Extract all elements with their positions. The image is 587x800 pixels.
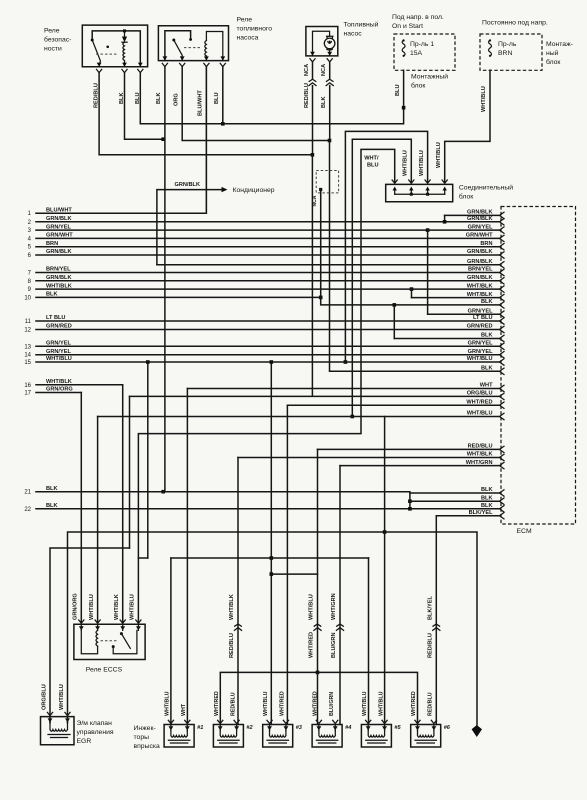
svg-text:WHT/BLU: WHT/BLU xyxy=(59,684,65,710)
ECM row GRN/YEL at y314 xyxy=(428,313,500,315)
wire BLK from relay K2 pin1 down to row21 xyxy=(164,67,166,492)
relay K3 pin arrows xyxy=(79,620,84,623)
svg-text:NCA: NCA xyxy=(304,64,310,76)
svg-text:GRN/BLK: GRN/BLK xyxy=(175,182,200,188)
svg-text:Кондиционер: Кондиционер xyxy=(233,187,275,194)
wire riser row17 to ECCS relay pin1 xyxy=(80,393,82,623)
row 21 wire BLK xyxy=(36,491,410,493)
row 7 wire BRN/YEL xyxy=(36,272,500,274)
svg-text:BRN: BRN xyxy=(498,50,512,57)
svg-text:21: 21 xyxy=(24,490,31,496)
svg-text:BLK: BLK xyxy=(321,97,327,109)
BLK rows corner riser xyxy=(409,493,411,509)
fuse F2 (Пр-ль BRN) dashed mounting block xyxy=(480,34,542,70)
svg-text:RED/BLU: RED/BLU xyxy=(230,692,236,716)
svg-text:BLK/YEL: BLK/YEL xyxy=(428,595,434,620)
injector #4 coil xyxy=(319,731,335,738)
svg-text:WHT/RED: WHT/RED xyxy=(411,691,417,716)
svg-text:BLU/GRN: BLU/GRN xyxy=(331,633,337,658)
svg-text:Постоянно под напр.: Постоянно под напр. xyxy=(482,20,548,27)
svg-text:WHT/RED: WHT/RED xyxy=(466,399,492,405)
BLK row tap riser from ECM BLK row 304.9 xyxy=(393,303,397,307)
svg-text:WHT/RED: WHT/RED xyxy=(313,691,319,716)
svg-text:WHT/RED: WHT/RED xyxy=(280,691,286,716)
svg-text:#1: #1 xyxy=(197,725,203,731)
svg-text:WHT/BLU: WHT/BLU xyxy=(165,691,171,716)
row 13 wire GRN/YEL xyxy=(36,345,500,347)
fuel pump (Топливный насос) box xyxy=(306,27,338,56)
svg-text:ECM: ECM xyxy=(517,528,532,535)
relay K1 (Реле безопасности) box xyxy=(82,25,147,67)
svg-text:BLK/YEL: BLK/YEL xyxy=(469,510,494,516)
svg-text:WHT: WHT xyxy=(480,383,493,389)
fuse F1 (Пр-ль 1 15A) dashed mounting block xyxy=(394,34,455,70)
junction NCA wire at row10 end xyxy=(319,296,323,300)
row 16 wire WHT/BLK xyxy=(36,384,123,386)
svg-text:12: 12 xyxy=(24,328,31,334)
svg-text:NCA: NCA xyxy=(321,64,327,76)
NCA stub wire to row 10 xyxy=(319,188,322,191)
svg-text:LT BLU: LT BLU xyxy=(473,315,492,321)
ECM row GRN/BLK at y215 xyxy=(445,214,500,216)
svg-text:RED/BLU: RED/BLU xyxy=(304,83,310,108)
row 22 wire BLK xyxy=(36,508,500,510)
svg-text:WHT/BLU: WHT/BLU xyxy=(419,150,425,176)
svg-text:RED/BLU: RED/BLU xyxy=(428,633,434,658)
row 9 wire WHT/BLK xyxy=(36,288,500,290)
row 6 wire GRN/BLK xyxy=(36,254,500,256)
relay K3 switch xyxy=(120,632,123,635)
connector on pump left wire xyxy=(309,79,316,81)
svg-text:WHT/BLK: WHT/BLK xyxy=(46,283,72,289)
svg-text:RED/BLU: RED/BLU xyxy=(468,444,493,450)
svg-text:GRN/YEL: GRN/YEL xyxy=(468,308,493,314)
svg-text:16: 16 xyxy=(24,383,31,389)
row 4 wire GRN/WHT xyxy=(36,237,500,239)
svg-text:WHT/GRN: WHT/GRN xyxy=(466,460,493,466)
svg-text:BLU/GRN: BLU/GRN xyxy=(329,692,335,716)
row 1 riser to relay K2 BLU/WHT pin xyxy=(204,67,206,214)
ECM row BLK/YEL at y515 xyxy=(436,515,500,517)
svg-text:BLU/WHT: BLU/WHT xyxy=(198,90,204,116)
wire WHT/GRN ECM row down to injector4 right xyxy=(339,466,341,725)
svg-text:GRN/WHT: GRN/WHT xyxy=(466,233,493,239)
relay K2 internal bus left xyxy=(165,31,191,61)
relay K1 internal top bus xyxy=(92,31,140,67)
row 8 wire GRN/BLK xyxy=(36,280,500,282)
svg-text:WHT/BLK: WHT/BLK xyxy=(467,283,493,289)
svg-text:WHT/BLK: WHT/BLK xyxy=(229,594,235,620)
svg-text:#4: #4 xyxy=(345,725,352,731)
injector3 left pin wire xyxy=(270,558,272,725)
fuel pump motor circle xyxy=(324,38,335,49)
svg-text:BLK: BLK xyxy=(481,495,493,501)
svg-text:GRN/YEL: GRN/YEL xyxy=(468,341,493,347)
svg-text:Соединительный: Соединительный xyxy=(459,184,513,192)
svg-text:GRN/WHT: GRN/WHT xyxy=(46,233,73,239)
svg-text:безопас-: безопас- xyxy=(44,36,71,44)
wire WHT/BLU junction block pin3 chain to row15 xyxy=(345,131,427,362)
svg-text:WHT/BLK: WHT/BLK xyxy=(467,292,493,298)
wire WHT/BLU junction block pin2 chain to ECM WHT/BLU row xyxy=(352,139,411,416)
svg-text:WHT/BLU: WHT/BLU xyxy=(403,150,409,176)
svg-text:блок: блок xyxy=(411,82,425,90)
EGR right pin wire from ground bus xyxy=(68,532,478,725)
svg-text:WHT/BLK: WHT/BLK xyxy=(46,379,72,385)
wire riser row15 to injector3 left xyxy=(270,362,272,558)
svg-text:BLK: BLK xyxy=(481,503,493,509)
relay K2 coil xyxy=(205,56,207,61)
ground bus junction WHT/BLU riser xyxy=(383,530,387,534)
svg-text:14: 14 xyxy=(24,353,31,359)
svg-text:BLK: BLK xyxy=(46,292,58,298)
svg-text:WHT/BLU: WHT/BLU xyxy=(481,86,487,112)
svg-text:WHT/GRN: WHT/GRN xyxy=(331,593,337,620)
svg-text:BLK: BLK xyxy=(46,486,58,492)
svg-text:ORG: ORG xyxy=(173,93,179,106)
row9 tap to WHT/BLK ECM row xyxy=(410,287,414,291)
injector #3 box xyxy=(263,725,293,748)
svg-text:RED/BLU: RED/BLU xyxy=(428,692,434,716)
svg-text:WHT/BLU: WHT/BLU xyxy=(130,594,136,620)
ECM arrow+label BRN/YEL y272 xyxy=(500,269,505,275)
ECM dashed box xyxy=(501,207,576,525)
wire NCA/RED_BLU from pump left pin xyxy=(312,62,314,79)
wire ORG from relay K2 pin2 xyxy=(182,67,329,141)
injector odd feed line y558 left stub xyxy=(138,557,147,559)
svg-text:BLU: BLU xyxy=(395,85,401,97)
ECM row WHT/RED at y405 xyxy=(287,404,500,406)
connector on pump right wire xyxy=(326,79,333,81)
row3 tap dot xyxy=(426,228,430,232)
svg-text:Реле: Реле xyxy=(237,17,253,24)
svg-text:ORG/BLU: ORG/BLU xyxy=(42,684,48,710)
relay K2 (Реле топливного насоса) box xyxy=(158,26,228,61)
svg-text:GRN/ORG: GRN/ORG xyxy=(73,593,79,620)
ECM row RED/BLU at y449 xyxy=(318,448,501,450)
junction: JB pin3 chain on row 15 xyxy=(344,360,348,364)
fuel pump lower collar xyxy=(327,48,333,51)
row 2 wire GRN/BLK xyxy=(36,221,500,223)
svg-text:WHT/BLK: WHT/BLK xyxy=(114,594,120,620)
svg-text:ORG/BLU: ORG/BLU xyxy=(467,391,493,397)
ECM arrow+label WHT/BLU y362 xyxy=(500,359,505,365)
ECM arrow+label BLK y371 xyxy=(500,368,505,374)
svg-text:22: 22 xyxy=(24,507,31,513)
wire ECCS pin2 riser to WHT/BLU ECM row xyxy=(97,417,99,623)
svg-text:Под напр. в пол.: Под напр. в пол. xyxy=(392,14,444,21)
injector #4 box xyxy=(312,725,342,748)
svg-text:управления: управления xyxy=(77,729,114,736)
junction feed bus xyxy=(316,671,320,675)
ECM arrow+label GRN/BLK y280 xyxy=(500,278,505,284)
svg-text:NCA: NCA xyxy=(312,195,318,206)
svg-text:GRN/RED: GRN/RED xyxy=(467,324,493,330)
svg-text:GRN/BLK: GRN/BLK xyxy=(46,275,71,281)
svg-text:RED/BLU: RED/BLU xyxy=(94,83,100,108)
NCA wire corner to ECM BLK row xyxy=(321,297,500,305)
svg-text:BLK: BLK xyxy=(481,299,493,305)
row3 tap riser down to ECM GRN/YEL row xyxy=(427,230,429,314)
svg-text:GRN/YEL: GRN/YEL xyxy=(46,341,71,347)
pump BLK wire continues down to ECM BLK row xyxy=(330,141,501,372)
ECM arrow+label GRN/WHT y238 xyxy=(500,235,505,241)
link wire y574 to injector feed riser xyxy=(270,572,274,576)
svg-text:GRN/YEL: GRN/YEL xyxy=(468,224,493,230)
ECM arrow+label BLK y304 xyxy=(500,302,505,308)
junction: BLK joins fuel-pump-relay BLK wire xyxy=(161,137,165,141)
ECM row BLK at y493 xyxy=(410,492,500,494)
injector #5 pin arrows xyxy=(366,726,371,730)
row 5 wire BRN xyxy=(36,246,500,248)
svg-text:GRN/BLK: GRN/BLK xyxy=(467,275,492,281)
injector #6 coil xyxy=(418,731,434,738)
svg-text:Реле: Реле xyxy=(44,28,60,35)
wire WHT/RED row down to injector3 right xyxy=(286,405,288,724)
ECM arrow+label GRN/YEL y346 xyxy=(500,343,505,349)
svg-text:10: 10 xyxy=(24,295,31,301)
fuse F2 symbol xyxy=(489,40,492,56)
wire BLU/WHT from relay K2 pin3 down to row1 xyxy=(205,67,207,214)
relay K1 coil junction xyxy=(123,29,126,32)
relay K3 (Реле ECCS) box xyxy=(74,624,145,659)
air conditioner wire GRN/BLK xyxy=(157,190,222,265)
relay K3 switch contact stub xyxy=(112,645,115,648)
ECM arrow+label BRN y246 xyxy=(500,244,505,250)
fuel pump motor mark xyxy=(328,42,332,44)
row15 tap dot at x147.8 xyxy=(146,360,150,364)
svg-text:BRN/YEL: BRN/YEL xyxy=(46,267,71,273)
ECM row WHT/BLK at y297 xyxy=(412,297,501,299)
svg-text:GRN/YEL: GRN/YEL xyxy=(46,349,71,355)
svg-text:Инжек-: Инжек- xyxy=(134,725,156,732)
row 12 wire GRN/RED xyxy=(36,329,500,331)
row 17 wire GRN/ORG xyxy=(36,392,81,394)
link row GRN/BLK corner to row2 xyxy=(444,215,446,221)
svg-text:Пр-ль: Пр-ль xyxy=(498,41,517,48)
EGR coil xyxy=(50,723,68,732)
wire WHT/BLK ECM row down to injector2 right xyxy=(237,458,239,725)
ECM row WHT/BLU at y416 xyxy=(98,416,500,418)
svg-text:11: 11 xyxy=(25,319,32,325)
injector #6 pin arrows xyxy=(415,726,420,730)
svg-text:Э/м клапан: Э/м клапан xyxy=(77,720,113,727)
WHT wire down to injector1 right pin xyxy=(186,389,188,725)
injector #5 coil xyxy=(368,731,384,738)
ground symbol bottom right xyxy=(472,725,482,737)
relay K3 coil circuit xyxy=(81,630,97,653)
svg-text:насос: насос xyxy=(344,31,363,38)
NCA dashed connector on pump wires xyxy=(316,171,338,193)
svg-text:BLK: BLK xyxy=(481,366,493,372)
row 11 wire LT BLU xyxy=(36,320,500,322)
wire row15 drop to feed line xyxy=(147,362,149,558)
svg-text:ности: ности xyxy=(44,46,62,53)
injector #2 coil xyxy=(220,731,236,738)
junction ORG joins pump BLK wire xyxy=(328,139,332,143)
svg-text:GRN/BLK: GRN/BLK xyxy=(467,216,492,222)
svg-text:WHT/BLU: WHT/BLU xyxy=(309,594,315,620)
svg-text:#3: #3 xyxy=(296,725,303,731)
wire RED/BLU from relay K1 pin1 xyxy=(99,73,312,155)
svg-text:WHT/BLU: WHT/BLU xyxy=(263,691,269,716)
relay K2 pin arrows xyxy=(163,56,168,60)
junction BLK at row 21 xyxy=(161,490,165,494)
svg-text:BLK: BLK xyxy=(119,93,125,105)
svg-text:BLK: BLK xyxy=(46,503,58,509)
svg-text:Монтажный: Монтажный xyxy=(411,73,448,81)
row 15 wire WHT/BLU xyxy=(36,361,500,363)
wire riser row16 to ECCS relay pin3 xyxy=(122,385,124,622)
wire BLK/YEL ECM row down to injector6 right xyxy=(435,516,437,725)
svg-text:GRN/YEL: GRN/YEL xyxy=(468,349,493,355)
svg-text:#5: #5 xyxy=(394,725,401,731)
wire WHT/BLU junction block pin1 chain to ECCS relay pin4 xyxy=(138,149,394,622)
svg-text:RED/BLU: RED/BLU xyxy=(229,633,235,658)
svg-text:WHT/RED: WHT/RED xyxy=(214,691,220,716)
svg-text:BLU/WHT: BLU/WHT xyxy=(46,207,72,213)
fuel pump inlet rect xyxy=(327,36,333,38)
ECM arrow+label BLK y508 xyxy=(500,506,505,512)
svg-text:блок: блок xyxy=(459,193,473,201)
ECM row ORG/BLU at y396 xyxy=(130,395,501,397)
wire BLU from relay K1 pin3 xyxy=(140,70,403,124)
svg-text:LT BLU: LT BLU xyxy=(46,315,65,321)
injector1 left pin wire from 558 line xyxy=(170,558,172,725)
svg-text:WHT/: WHT/ xyxy=(364,156,379,162)
injector #3 pin arrows xyxy=(267,726,272,730)
wire BLU from relay K2 pin4 xyxy=(222,67,224,124)
svg-text:BLK: BLK xyxy=(481,333,493,339)
svg-text:GRN/BLK: GRN/BLK xyxy=(467,249,492,255)
row 1 wire BLU/WHT xyxy=(36,212,204,214)
junction block internal bus xyxy=(395,193,445,195)
wire NCA/BLK from pump right pin xyxy=(329,62,331,79)
ECM arrow+label GRN/BLK y255 xyxy=(500,252,505,258)
svg-text:17: 17 xyxy=(24,391,31,397)
svg-text:BLU: BLU xyxy=(135,93,141,105)
injector #1 coil xyxy=(171,731,187,738)
svg-text:Монтаж-: Монтаж- xyxy=(546,41,573,48)
svg-text:GRN/RED: GRN/RED xyxy=(46,324,72,330)
junction block (Соединительный блок) box xyxy=(386,184,453,201)
EGR pin arrows xyxy=(48,718,53,722)
relay K1 pin arrows xyxy=(97,63,102,67)
injector #3 coil xyxy=(270,731,286,738)
svg-text:Пр-ль 1: Пр-ль 1 xyxy=(410,41,434,48)
svg-text:BRN: BRN xyxy=(480,241,492,247)
ECM row WHT/BLK at y457 xyxy=(238,457,500,459)
svg-text:BLU: BLU xyxy=(214,93,220,105)
svg-text:GRN/BLK: GRN/BLK xyxy=(467,210,492,216)
row 3 wire GRN/YEL xyxy=(36,229,500,231)
relay K1 coil xyxy=(123,42,125,60)
svg-text:GRN/ORG: GRN/ORG xyxy=(46,387,73,393)
svg-text:WHT/RED: WHT/RED xyxy=(309,632,315,658)
injector5 left pin wire xyxy=(368,558,370,725)
relay K2 switch xyxy=(174,40,182,61)
svg-text:BRN: BRN xyxy=(46,241,58,247)
EGR solenoid valve box xyxy=(41,717,75,745)
row 14 wire GRN/YEL xyxy=(36,354,500,356)
svg-text:WHT/BLK: WHT/BLK xyxy=(467,452,493,458)
ECM row WHT at y388 xyxy=(187,388,500,390)
svg-text:GRN/BLK: GRN/BLK xyxy=(46,249,71,255)
svg-text:WHT/BLU: WHT/BLU xyxy=(46,356,72,362)
svg-text:WHT/BLU: WHT/BLU xyxy=(362,691,368,716)
svg-text:EGR: EGR xyxy=(77,738,92,745)
junction dot on fuse wire xyxy=(402,106,406,110)
relay K1 switch xyxy=(92,40,100,67)
svg-text:WHT/BLU: WHT/BLU xyxy=(467,411,493,417)
svg-text:Топливный: Топливный xyxy=(344,21,379,29)
EGR ORG/BLU feed line y548 xyxy=(50,548,130,723)
relay K1 diode xyxy=(124,31,126,37)
svg-text:GRN/BLK: GRN/BLK xyxy=(46,216,71,222)
svg-text:Реле ECCS: Реле ECCS xyxy=(86,667,123,674)
junction: RED/BLU joins fuel-pump wire xyxy=(311,153,315,157)
svg-text:#6: #6 xyxy=(444,725,451,731)
injector #1 pin arrows xyxy=(169,726,174,730)
junction: BLU bus and fuel-pump-relay BLU xyxy=(221,122,225,126)
fuel pump internal wire xyxy=(313,31,330,56)
svg-text:WHT/BLU: WHT/BLU xyxy=(467,356,493,362)
fuel pump pin arrows xyxy=(310,52,315,56)
svg-text:On и Start: On и Start xyxy=(392,23,423,30)
ECM row GRN/BLK at y264 xyxy=(157,264,500,266)
svg-text:топливного: топливного xyxy=(237,26,273,33)
wire ORG/BLU row corner down to EGR feed line xyxy=(129,396,131,548)
injector odd feed line y558 xyxy=(171,557,369,559)
ECM arrow+label GRN/BLK y221 xyxy=(500,219,505,225)
fuse F1 symbol xyxy=(402,40,405,56)
svg-text:GRN/YEL: GRN/YEL xyxy=(46,224,71,230)
svg-text:15A: 15A xyxy=(410,50,423,57)
injector #2 box xyxy=(213,725,243,748)
svg-text:BLU: BLU xyxy=(367,163,379,169)
svg-text:WHT/BLU: WHT/BLU xyxy=(436,142,442,168)
svg-text:GRN/BLK: GRN/BLK xyxy=(467,259,492,265)
injector #6 box xyxy=(411,725,441,748)
row 10 wire BLK xyxy=(36,296,321,298)
injector even feed bus y672 xyxy=(220,672,417,724)
wire WHT/BLU from fuse F2 to junction block pin4 xyxy=(445,70,490,181)
pump RED/BLU wire continues to ORG/BLU row xyxy=(311,155,313,396)
wire BLK from relay K1 pin2 xyxy=(125,73,164,140)
ECM row BLK at y338 xyxy=(394,338,500,340)
ECM row BLK at y501 xyxy=(410,500,500,502)
injector #2 pin arrows xyxy=(218,726,223,730)
svg-text:WHT/BLU: WHT/BLU xyxy=(89,594,95,620)
svg-text:13: 13 xyxy=(24,344,31,350)
junction block pin arrows xyxy=(392,180,397,183)
injector #5 box xyxy=(361,725,391,748)
ECM arrow+label WHT/BLK y289 xyxy=(500,286,505,292)
wire WHT/BLU ECM row down to injector5 right xyxy=(384,417,386,725)
svg-text:WHT/BLU: WHT/BLU xyxy=(378,691,384,716)
svg-text:впрыска: впрыска xyxy=(134,743,160,750)
svg-text:насоса: насоса xyxy=(237,35,259,42)
wire RED/BLU ECM row down to injector feed bus xyxy=(317,449,319,672)
injector #4 pin arrows xyxy=(316,726,321,730)
injector4 left pin wire xyxy=(317,672,319,724)
injector #1 box xyxy=(164,725,194,748)
svg-text:блок: блок xyxy=(546,58,560,66)
ECM arrow+label GRN/YEL y354 xyxy=(500,352,505,358)
ECM arrow+label GRN/RED y329 xyxy=(500,326,505,332)
svg-text:торы: торы xyxy=(134,734,150,741)
ECM arrow+label GRN/YEL y230 xyxy=(500,227,505,233)
